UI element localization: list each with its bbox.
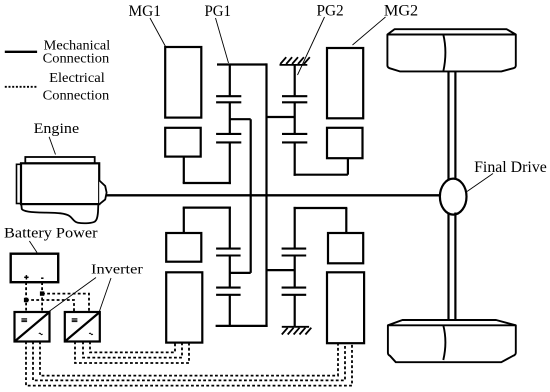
- battery box: [11, 254, 59, 283]
- engine valve cover: [25, 157, 94, 163]
- electrical wiring: [26, 282, 352, 385]
- PG1 ring vertical (long): [265, 63, 267, 327]
- leader line Inverter 1: [49, 278, 96, 312]
- battery minus terminal: [41, 277, 43, 279]
- svg-text:Battery Power: Battery Power: [4, 226, 98, 242]
- PG2 gear mesh bar 6: [282, 254, 307, 256]
- MG1 lower rotor link vertical: [183, 208, 185, 233]
- MG2 lower rotor link vertical: [345, 208, 347, 233]
- inverter 1 DC symbol: [21, 319, 27, 322]
- wire inverter2 phase 1 to MG1: [90, 342, 175, 353]
- svg-text:Electrical: Electrical: [49, 71, 105, 86]
- svg-text:Connection: Connection: [43, 52, 110, 67]
- wire plus branch to inverter 2: [26, 300, 74, 312]
- leader line MG2: [353, 17, 386, 45]
- legend label Mechanical Connection: [43, 39, 111, 67]
- PG1 top bar: [217, 63, 267, 65]
- PG2 upper ground: [280, 57, 310, 65]
- legend mechanical sample line: [5, 51, 37, 53]
- PG2 lower shaft segment b: [294, 256, 296, 288]
- MG1 stator (lower): [166, 272, 202, 342]
- final drive ellipse: [440, 179, 467, 215]
- PG2 gear mesh bar 4: [282, 141, 307, 143]
- PG2 gear mesh bar 1: [282, 95, 307, 97]
- leader line Final Drive: [467, 174, 493, 192]
- PG1 gear mesh bar 8: [216, 294, 241, 296]
- wire battery minus down: [41, 282, 43, 312]
- PG1 gear mesh bar 7: [216, 287, 241, 289]
- engine left plate: [17, 164, 22, 203]
- PG2 upper shaft segment a: [294, 65, 296, 96]
- PG1 gear mesh bar 5: [216, 248, 241, 250]
- wire inverter1 phase 3 to MG2: [26, 342, 352, 386]
- PG2 gear mesh bar 8: [282, 294, 307, 296]
- PG2 upper shaft segment b: [294, 102, 296, 134]
- front wheel (top): [387, 29, 515, 71]
- svg-text:Inverter: Inverter: [91, 263, 143, 278]
- MG1 rotor (upper): [165, 128, 201, 157]
- inverter 2 AC symbol: [89, 333, 93, 335]
- PG1 gear mesh bar 4: [216, 141, 241, 143]
- svg-text:MG1: MG1: [129, 3, 162, 20]
- MG2 rotor link vertical: [347, 158, 349, 175]
- wire inverter2 phase 3 to MG1: [75, 342, 189, 364]
- PG1 upper shaft segment a: [229, 65, 231, 97]
- inverter 1 box: [15, 312, 50, 342]
- inverter 1 AC symbol: [39, 333, 43, 335]
- PG2 gear mesh bar 7: [282, 287, 307, 289]
- MG2 rotor (upper): [327, 128, 363, 158]
- MG2 stator (lower): [327, 272, 364, 343]
- legend electrical sample line: [5, 86, 37, 88]
- MG1 rotor link vertical: [183, 157, 185, 183]
- leader line Engine: [49, 137, 55, 155]
- PG2 gear mesh bar 5: [282, 248, 307, 250]
- PG1 lower shaft segment a: [229, 207, 231, 249]
- PG2 lower ground: [282, 327, 312, 335]
- PG2 lower shaft segment c: [294, 295, 296, 327]
- MG1 stator (upper): [165, 47, 201, 118]
- svg-text:Connection: Connection: [43, 89, 110, 104]
- PG1 lower jog: [230, 272, 251, 274]
- PG2 lower horizontal: [294, 207, 348, 209]
- engine block: [21, 163, 99, 204]
- PG2 lower jog: [267, 269, 295, 271]
- PG1 gear mesh bar 3: [216, 133, 241, 135]
- wire inverter1 phase 2 to MG2: [33, 342, 345, 381]
- PG1 upper jog: [230, 118, 251, 120]
- inverter 1 diagonal: [15, 312, 50, 342]
- MG2 stator (upper): [327, 48, 363, 118]
- PG1 bottom bar: [216, 325, 268, 327]
- PG1 gear mesh bar 6: [216, 254, 241, 256]
- leader line PG1: [216, 18, 229, 63]
- MG1 rotor link horizontal: [183, 182, 231, 184]
- leader line Inverter 2: [100, 278, 112, 311]
- legend label Electrical Connection: [43, 71, 110, 103]
- engine oil pan: [21, 204, 98, 224]
- inverter 2 DC symbol: [72, 319, 78, 322]
- PG1 gear mesh bar 1: [216, 95, 241, 97]
- PG2 gear mesh bar 2: [282, 101, 307, 103]
- wire inverter1 phase 1 to MG2: [40, 342, 338, 376]
- axle lower: [449, 213, 456, 321]
- battery plus terminal: [24, 275, 28, 279]
- PG1 carrier vertical (crosses shaft): [250, 119, 252, 273]
- inverter 2 diagonal: [65, 312, 100, 342]
- leader line MG1: [150, 18, 166, 47]
- MG1 lower rotor link horizontal: [183, 207, 231, 209]
- inverter 2 box: [65, 312, 100, 342]
- PG2 to MG2 rotor horizontal: [294, 174, 348, 176]
- engine output nose: [99, 180, 106, 204]
- junction dot minus rail: [40, 291, 44, 295]
- PG1 gear mesh bar 2: [216, 101, 241, 103]
- svg-text:MG2: MG2: [384, 2, 418, 19]
- wire minus branch to inverter 2: [42, 294, 89, 312]
- MG2 rotor (lower): [328, 233, 363, 263]
- leader line Battery Power: [29, 241, 37, 253]
- PG1 upper shaft segment b: [229, 102, 231, 134]
- junction dot plus rail: [24, 298, 28, 302]
- PG1 lower shaft segment b: [229, 256, 231, 288]
- main mechanical shaft: [106, 194, 441, 196]
- wire battery plus down: [25, 282, 27, 312]
- PG1 lower shaft segment c: [229, 295, 231, 327]
- axle upper: [449, 71, 456, 181]
- svg-text:Final Drive: Final Drive: [474, 159, 547, 176]
- leader line PG2: [298, 17, 325, 75]
- PG2 gear mesh bar 3: [282, 133, 307, 135]
- PG1 upper shaft segment c: [229, 142, 231, 184]
- wire inverter2 phase 2 to MG1: [83, 342, 182, 358]
- PG2 upper shaft segment c: [294, 142, 296, 175]
- PG2 lower shaft segment a: [294, 207, 296, 249]
- rear wheel (bottom): [388, 320, 516, 362]
- svg-text:Engine: Engine: [34, 121, 80, 137]
- PG2 upper jog: [267, 116, 295, 118]
- MG1 rotor (lower): [166, 233, 201, 262]
- svg-text:PG2: PG2: [317, 2, 344, 19]
- svg-text:PG1: PG1: [205, 3, 232, 20]
